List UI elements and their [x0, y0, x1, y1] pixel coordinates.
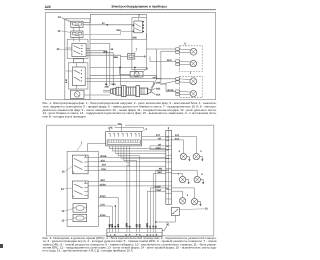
left headlamp housing (item 10, dashed)	[180, 76, 203, 97]
svg-text:8: 8	[201, 173, 203, 176]
svg-text:27БА: 27БА	[100, 214, 106, 217]
svg-text:ЧЛ: ЧЛ	[158, 137, 162, 140]
instrument connector strip 17	[107, 229, 162, 237]
label 3	[168, 127, 170, 131]
svg-text:КЛ: КЛ	[138, 224, 141, 227]
connector feed wires + labels	[103, 86, 111, 92]
svg-text:Б: Б	[155, 225, 158, 227]
wire 27Н to bottom connector	[98, 204, 116, 229]
svg-text:1: 1	[73, 171, 75, 174]
wire 56 (switch to connector)	[86, 48, 114, 86]
wire to fuse feed	[86, 55, 120, 86]
wire labels 67БР 27БЛ	[155, 185, 162, 191]
svg-text:12: 12	[61, 219, 64, 222]
svg-text:30Б: 30Б	[156, 81, 161, 84]
wire 27БС to bottom connector	[98, 195, 118, 229]
svg-text:ЗЕЛА: ЗЕЛА	[100, 183, 107, 186]
svg-text:56А: 56А	[103, 50, 108, 53]
relay K12	[73, 214, 87, 221]
svg-text:56: 56	[111, 48, 114, 51]
svg-text:67БР: 67БР	[155, 185, 161, 188]
caption 1	[43, 101, 217, 119]
front turn lamp left	[193, 153, 199, 159]
svg-text:56А: 56А	[111, 83, 116, 86]
svg-text:6: 6	[179, 150, 181, 153]
stop lamp switch (small)	[73, 59, 83, 63]
svg-text:5: 5	[200, 150, 202, 153]
wires block 4 to connector 3 (top pair)	[142, 136, 166, 149]
wire 15A (relay K13 to K2, stepped)	[83, 29, 133, 34]
scan mark at page edge	[0, 244, 3, 248]
svg-text:3: 3	[168, 127, 170, 130]
svg-text:56Б: 56Б	[114, 56, 119, 59]
light switch S14	[72, 43, 86, 56]
wire top bus (relay K12 to K2 enclosure)	[83, 14, 146, 22]
svg-text:ния; В - колодка жгута проводо: ния; В - колодка жгута проводов.	[43, 115, 87, 119]
bulb connector pins	[176, 60, 190, 66]
svg-text:1: 1	[73, 195, 75, 198]
mounting block (item 3)	[65, 19, 90, 100]
label 1	[77, 141, 83, 151]
svg-text:З1А: З1А	[175, 137, 180, 140]
cascade wires block 4 to connector 3	[109, 146, 165, 229]
wire links K13 to switch S14	[66, 27, 79, 89]
high beam bulb (left)	[190, 78, 197, 85]
svg-text:9: 9	[146, 67, 148, 70]
dimmer switch S15 enclosure	[68, 63, 88, 89]
svg-text:15: 15	[62, 171, 65, 174]
svg-text:А3: А3	[166, 139, 168, 142]
ground (DRL left)	[200, 180, 204, 185]
relay K13	[73, 204, 87, 213]
wire ЗЕЛБ to lamp (left lamp low)	[161, 84, 176, 92]
wires connector 3 to rear lamps	[147, 188, 194, 229]
label 13	[61, 209, 73, 213]
svg-text:ЗЖЛ: ЗЖЛ	[156, 147, 161, 150]
wire labels (S14)	[100, 179, 107, 186]
wire to connector (down at x=109.8)	[90, 44, 110, 86]
wire 30Б drop to block 4	[121, 125, 123, 131]
svg-text:27Б: 27Б	[108, 127, 113, 130]
DRL lamp right	[179, 176, 185, 182]
wire 56А (switch to connector)	[86, 50, 116, 86]
label 8	[143, 67, 148, 71]
connector fan-out wires	[151, 81, 161, 96]
wire ЧБ down to connector	[90, 76, 156, 89]
feed wires to right headlamp	[146, 49, 176, 84]
wires connector 3 to right turn lamps	[172, 136, 197, 153]
wire 27Б to diagnostic block	[108, 127, 143, 132]
wires light switch S15 to connector 3	[88, 158, 166, 171]
caption 2	[43, 236, 217, 253]
wire bus y=67.4 with junctions	[90, 67, 146, 72]
lamp labels 5 6	[179, 150, 203, 153]
svg-text:30Б: 30Б	[104, 86, 109, 89]
ground (DRL right)	[186, 180, 190, 185]
wire labels (S15)	[100, 155, 107, 171]
block 4 pins	[109, 133, 140, 137]
relay K13 (low-beam relay)	[71, 31, 83, 37]
wire connector 3 bottom to strip	[155, 216, 175, 223]
svg-text:А2: А2	[166, 148, 168, 151]
label 2	[138, 15, 140, 21]
bulb connector pins	[176, 90, 190, 96]
svg-text:Б3: Б3	[166, 169, 168, 172]
wire block 4 to switch box	[88, 144, 106, 152]
svg-text:9: 9	[187, 194, 189, 197]
parking brake switch 10	[171, 208, 179, 216]
light switch S15	[72, 155, 88, 174]
label 13	[57, 30, 70, 33]
svg-text:4: 4	[145, 128, 147, 131]
label 12	[58, 16, 73, 23]
washer pump motor 8	[120, 67, 143, 77]
DRL lamp left	[194, 176, 200, 182]
bulb connector pins	[176, 78, 190, 84]
svg-text:ЗЛ: ЗЛ	[158, 143, 161, 146]
rear lamp left	[191, 198, 197, 204]
svg-text:14: 14	[61, 188, 64, 191]
label 12	[61, 219, 73, 223]
label 5	[184, 42, 186, 46]
svg-text:13: 13	[57, 30, 60, 33]
wire motor to connector	[84, 94, 110, 96]
light switch S14 enclosure	[67, 39, 88, 58]
svg-text:10: 10	[205, 207, 208, 210]
svg-text:З1Л: З1Л	[175, 134, 180, 137]
svg-text:него хода; 16 - датчик включен: него хода; 16 - датчик включения; А В С …	[43, 249, 134, 253]
svg-text:27Н: 27Н	[100, 204, 105, 207]
svg-text:ЧРНБ: ЧРНБ	[100, 155, 107, 158]
wire 30Б (block to K2 bottom)	[90, 33, 146, 39]
low beam bulb (right)	[190, 60, 196, 66]
connector 3 pin ids	[166, 135, 169, 190]
svg-text:15А: 15А	[116, 29, 121, 32]
wires connector 3 to DRL lamps	[153, 170, 197, 229]
vertical wire code labels	[108, 223, 157, 228]
wire labels ЖБ ЗБЛ	[157, 168, 162, 174]
harness connector 11	[111, 86, 151, 97]
svg-text:Б6: Б6	[166, 187, 168, 190]
strip 17 terminal letters	[110, 233, 158, 236]
ground (front right lamp)	[187, 157, 191, 162]
wire ЗЕЛ to lamp 6	[150, 56, 176, 62]
svg-text:27БЛ: 27БЛ	[155, 189, 161, 192]
svg-text:ЗБЛ: ЗБЛ	[157, 171, 162, 174]
wire 30 (relay K12 to K2)	[83, 22, 133, 25]
ground (rear left lamp)	[198, 202, 202, 207]
svg-text:А22: А22	[45, 5, 51, 9]
svg-text:2ЗН: 2ЗН	[101, 168, 106, 171]
svg-text:ЗЕЛ: ЗЕЛ	[100, 179, 105, 182]
svg-text:27Л: 27Л	[156, 134, 161, 137]
lamp label 9	[187, 194, 189, 197]
label 7	[133, 49, 137, 54]
svg-text:21Н: 21Н	[102, 164, 107, 167]
svg-text:56А: 56А	[156, 94, 161, 97]
wires turn switch S14 to connector 3	[88, 182, 166, 186]
svg-text:30Б: 30Б	[132, 37, 137, 40]
label 10	[180, 207, 209, 210]
svg-text:56Б: 56Б	[156, 87, 161, 90]
switch assembly box (item 1)	[67, 151, 98, 226]
block 4 pin ticks	[109, 140, 138, 142]
strip 17 pin ticks	[110, 229, 156, 233]
svg-text:13: 13	[61, 210, 64, 213]
svg-text:14: 14	[56, 48, 59, 51]
fuse F7	[121, 54, 147, 59]
wire 27БА to bottom connector	[98, 214, 109, 229]
svg-text:2: 2	[138, 15, 140, 18]
label 14	[56, 48, 72, 51]
label 30Б (supply net, on frame top)	[117, 122, 125, 126]
wire labels З1Л З1А	[156, 134, 180, 150]
svg-text:ЗЛ: ЗЛ	[117, 224, 120, 227]
relay K12 (high-beam relay)	[71, 21, 83, 27]
svg-text:27Л: 27Л	[101, 159, 106, 162]
svg-text:Электрооборудование и приборы: Электрооборудование и приборы	[111, 5, 167, 9]
harness connector 3	[166, 130, 172, 204]
front turn lamp right	[180, 153, 186, 159]
label 14	[61, 188, 73, 191]
relay K2 enclosure	[132, 18, 147, 70]
svg-text:ЗЕЛ: ЗЕЛ	[167, 59, 172, 62]
ground (bottom right)	[162, 223, 169, 231]
dimmer switch S15	[66, 67, 86, 86]
low beam bulb (left)	[190, 91, 196, 97]
svg-text:12: 12	[58, 16, 61, 19]
lamp labels 7 8	[178, 173, 204, 176]
relay K2	[133, 21, 145, 33]
label 15	[62, 166, 73, 174]
connector 3 cell ticks	[166, 136, 172, 199]
svg-text:ЖБ: ЖБ	[159, 168, 163, 171]
washer motor M	[70, 90, 84, 98]
rear lamp right	[179, 198, 185, 204]
ground (front left lamp)	[200, 157, 204, 162]
diagnostic connector block 4	[106, 132, 142, 146]
turn signal switch S14	[72, 181, 88, 198]
high beam bulb (right)	[190, 48, 197, 55]
svg-text:27БС: 27БС	[100, 195, 106, 198]
svg-text:ЗЕЛБ: ЗЕЛБ	[167, 89, 174, 92]
svg-text:А6: А6	[166, 145, 168, 148]
svg-text:ЧБ: ЧБ	[153, 77, 157, 80]
wire dimmer to lamp feed	[86, 78, 161, 84]
terminal tick below housing 5	[190, 72, 192, 75]
svg-text:Б: Б	[129, 225, 132, 227]
svg-text:А4: А4	[166, 135, 169, 138]
label 4	[142, 128, 148, 132]
bulb connector pins	[176, 48, 190, 54]
right headlamp housing (item 5, dashed)	[180, 46, 203, 72]
